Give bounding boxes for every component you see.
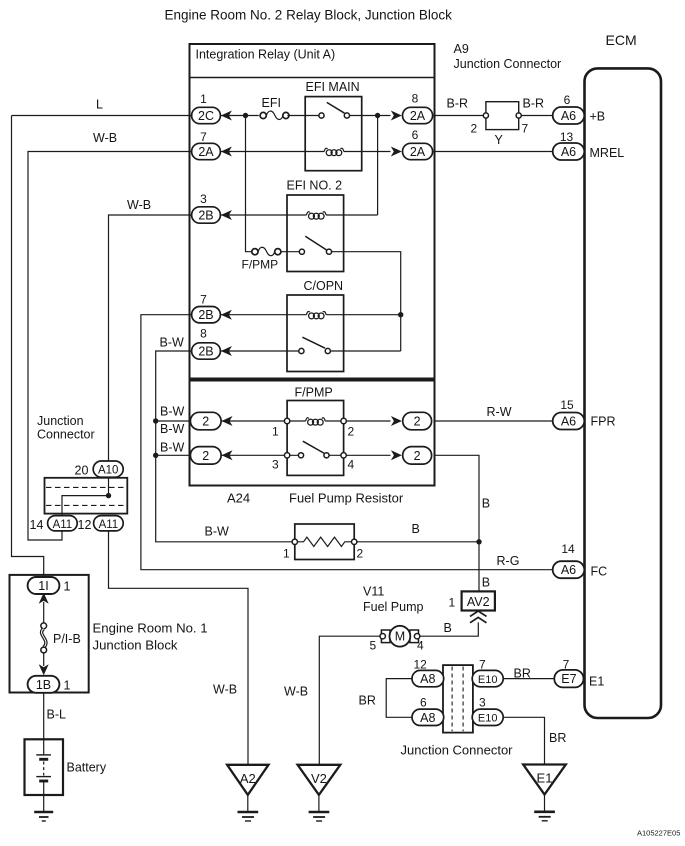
svg-text:3: 3 xyxy=(479,696,486,710)
node dot C/OPN xyxy=(398,312,403,317)
svg-text:3: 3 xyxy=(200,192,207,206)
svg-text:Integration Relay (Unit A): Integration Relay (Unit A) xyxy=(196,48,336,62)
wire arrow to fusible link xyxy=(43,602,45,623)
dashed vertical 1 xyxy=(451,667,453,732)
ECM box xyxy=(585,68,662,718)
wire EFI NO.2 coil right up xyxy=(326,214,378,216)
svg-text:C/OPN: C/OPN xyxy=(304,279,344,293)
svg-text:Connector: Connector xyxy=(37,428,95,442)
wire B from F/PMP pin4 row down xyxy=(435,455,480,542)
wire internal dot to A11 pin14 xyxy=(62,496,109,516)
svg-text:7: 7 xyxy=(522,122,529,136)
wire fuse to switch xyxy=(287,115,319,117)
svg-text:B-L: B-L xyxy=(47,708,67,722)
pin 7 circle of Y xyxy=(516,113,521,118)
svg-text:7: 7 xyxy=(563,658,570,672)
node junction dot inside A10 box xyxy=(106,493,111,498)
battery dashed middle xyxy=(43,762,45,776)
wire EFI NO.2 coil left to 2B pin3 xyxy=(221,214,307,216)
battery box xyxy=(25,739,64,795)
Engine Room No.1 junction block box xyxy=(10,575,89,693)
wire C/OPN coil right to dot xyxy=(326,314,401,316)
arrow down into 1B xyxy=(39,664,49,675)
wire F/PMP switch row right xyxy=(329,454,390,456)
wire fuse to EFI NO.2 switch xyxy=(280,251,299,253)
connector A8 pin6 xyxy=(412,709,444,725)
ground triangle V2 xyxy=(298,765,341,795)
svg-text:B: B xyxy=(444,621,452,635)
svg-text:W-B: W-B xyxy=(213,683,237,697)
svg-text:+B: +B xyxy=(590,110,606,124)
wire F/PMP coil row right xyxy=(325,420,390,422)
wire MREL row xyxy=(435,151,553,153)
resistor pin 1 circle xyxy=(292,539,297,544)
pin 2 circle of Y xyxy=(483,113,488,118)
svg-text:2: 2 xyxy=(414,415,421,429)
connector 2C pin1 xyxy=(192,107,221,123)
wire internal dot to A11 pin14 (redraw above box) xyxy=(62,478,109,514)
relay F/PMP box xyxy=(287,401,344,476)
arrow into 2A pin8 right xyxy=(391,111,402,121)
svg-text:6: 6 xyxy=(420,696,427,710)
svg-text:14: 14 xyxy=(30,518,44,532)
svg-text:2A: 2A xyxy=(198,145,214,159)
svg-text:2C: 2C xyxy=(198,109,214,123)
svg-text:R-G: R-G xyxy=(497,554,520,568)
arrow into 2 right row1 xyxy=(391,416,402,426)
svg-text:BR: BR xyxy=(514,667,531,681)
wire link to down arrow xyxy=(43,653,45,666)
svg-text:2B: 2B xyxy=(198,345,213,359)
svg-text:Junction Connector: Junction Connector xyxy=(401,743,514,758)
svg-text:2A: 2A xyxy=(410,145,426,159)
svg-text:Fuel Pump Resistor: Fuel Pump Resistor xyxy=(289,491,404,506)
svg-text:W-B: W-B xyxy=(93,131,117,145)
connector 2 right row2 xyxy=(403,447,432,465)
wire B-W from 2B pin8 xyxy=(156,351,295,542)
EFI MAIN switch contacts xyxy=(319,113,324,118)
arrow into 2A pin7 xyxy=(221,147,232,157)
svg-text:20: 20 xyxy=(75,464,89,478)
wire B dot down to AV2 xyxy=(478,542,480,592)
connector 2 F/PMP pin3 side xyxy=(190,447,221,465)
svg-text:E1: E1 xyxy=(589,675,604,689)
svg-text:A9: A9 xyxy=(454,42,469,56)
svg-text:7: 7 xyxy=(200,293,207,307)
EFI NO.2 coil xyxy=(307,212,310,215)
wire F/PMP switch row left xyxy=(221,454,298,456)
svg-text:B: B xyxy=(482,497,490,511)
node dot B-W row1 xyxy=(153,418,158,423)
svg-text:2: 2 xyxy=(202,415,209,429)
C/OPN switch blade xyxy=(302,337,325,348)
F/PMP pin 3 circle xyxy=(284,453,289,458)
wire B-W to F/PMP pin3 row xyxy=(156,454,191,456)
svg-text:Battery: Battery xyxy=(67,761,107,775)
svg-text:E10: E10 xyxy=(478,713,498,725)
wire battery to ground xyxy=(43,795,45,812)
svg-text:MREL: MREL xyxy=(590,146,625,160)
F/PMP switch blade xyxy=(303,441,324,453)
fusible link P/I-B xyxy=(41,623,47,629)
connector 2A pin8 xyxy=(403,107,433,123)
node dot B net xyxy=(476,539,481,544)
svg-text:BR: BR xyxy=(549,731,566,745)
fuse F/PMP xyxy=(252,249,258,255)
svg-text:L: L xyxy=(96,98,103,112)
arrow into 2B pin3 xyxy=(221,210,232,220)
svg-text:2: 2 xyxy=(471,122,478,136)
svg-text:M: M xyxy=(395,630,405,644)
ground triangle E1 xyxy=(523,765,566,795)
svg-text:4: 4 xyxy=(348,458,355,472)
battery internal wire bottom xyxy=(43,781,45,795)
svg-text:B-W: B-W xyxy=(160,441,185,455)
svg-text:1I: 1I xyxy=(38,579,48,593)
svg-text:2: 2 xyxy=(202,449,209,463)
arrow into 2B pin7 xyxy=(221,310,232,320)
resistor element xyxy=(298,537,352,546)
svg-text:B-W: B-W xyxy=(160,336,185,350)
svg-text:AV2: AV2 xyxy=(467,595,490,609)
node dot 2C row xyxy=(243,113,248,118)
dashed line lower xyxy=(46,504,126,506)
wire MREL coil row right xyxy=(344,151,391,153)
connector 2A pin6 xyxy=(403,143,433,159)
svg-text:2: 2 xyxy=(414,449,421,463)
connector 2 right row1 xyxy=(403,412,432,430)
connector E7 pin7 xyxy=(554,670,583,688)
fuse EFI xyxy=(260,112,266,118)
wire B-L 1B to battery xyxy=(43,693,45,740)
connector A6 pin14 FC xyxy=(553,561,585,578)
dashed line upper xyxy=(46,486,126,488)
wire fuel pump right to AV2 xyxy=(419,622,479,636)
svg-text:V11: V11 xyxy=(363,585,384,599)
F/PMP pin 2 circle xyxy=(341,418,346,423)
connector 1I xyxy=(28,577,60,594)
junction connector Y box xyxy=(486,102,519,130)
svg-text:FPR: FPR xyxy=(591,415,616,429)
svg-text:15: 15 xyxy=(560,398,574,412)
svg-text:Junction Connector: Junction Connector xyxy=(454,57,562,71)
header divider xyxy=(190,77,435,79)
svg-text:B-R: B-R xyxy=(447,97,469,111)
battery plate short 2 xyxy=(39,780,48,783)
svg-text:A6: A6 xyxy=(561,415,576,429)
connector A6 pin13 MREL xyxy=(553,143,585,160)
svg-text:4: 4 xyxy=(417,639,424,653)
svg-text:BR: BR xyxy=(359,694,376,708)
wire W-B from 2A pin7 xyxy=(28,152,192,541)
connector 2B pin7 xyxy=(192,307,221,323)
svg-text:13: 13 xyxy=(560,130,574,144)
svg-text:7: 7 xyxy=(200,130,207,144)
wire FC net from 2B pin7 to ECM FC xyxy=(141,315,553,570)
connector AV2 xyxy=(462,591,495,610)
connector A10 pin20 xyxy=(93,461,123,477)
svg-text:EFI NO. 2: EFI NO. 2 xyxy=(287,179,343,193)
svg-text:B: B xyxy=(482,576,490,590)
arrow into 2 row1 xyxy=(222,416,233,426)
svg-text:8: 8 xyxy=(412,92,419,106)
svg-text:12: 12 xyxy=(414,658,428,672)
svg-text:6: 6 xyxy=(412,128,419,142)
wire A11 pin12 down to A2 ground xyxy=(109,531,249,765)
wire B-W to F/PMP pin1 row xyxy=(156,420,191,422)
wire A8 pin12 to E10 pin7 through box xyxy=(444,678,473,680)
battery internal wire top xyxy=(43,739,45,755)
ground V2 bars xyxy=(318,795,320,812)
svg-text:Fuel Pump: Fuel Pump xyxy=(363,600,423,614)
svg-text:F/PMP: F/PMP xyxy=(242,258,279,272)
C/OPN coil xyxy=(307,311,310,314)
wire C/OPN switch left to 2B pin8 xyxy=(221,350,299,352)
svg-text:A11: A11 xyxy=(53,519,73,531)
connector 2B pin3 xyxy=(192,207,221,223)
svg-text:ECM: ECM xyxy=(606,32,637,48)
svg-text:A8: A8 xyxy=(420,672,435,686)
arrow into 2A pin6 right xyxy=(391,147,402,157)
C/OPN switch contacts xyxy=(299,348,304,353)
battery plate short 1 xyxy=(39,758,48,761)
svg-text:2B: 2B xyxy=(198,209,213,223)
connector A6 pin15 FPR xyxy=(553,413,585,430)
svg-text:P/I-B: P/I-B xyxy=(53,632,81,646)
dashed vertical 2 xyxy=(462,667,464,732)
svg-text:2: 2 xyxy=(357,547,364,561)
wire E10 pin3 to E1 ground xyxy=(503,717,545,764)
node junction dot A10/A11 xyxy=(106,493,111,498)
ground battery xyxy=(34,811,53,814)
svg-text:14: 14 xyxy=(561,542,575,556)
node dot B-W row2 xyxy=(153,453,158,458)
wire C/OPN coil left to 2B pin7 xyxy=(221,314,307,316)
F/PMP pin 4 circle xyxy=(341,453,346,458)
EFI NO.2 switch contacts xyxy=(299,249,304,254)
svg-text:A11: A11 xyxy=(99,519,119,531)
svg-text:1: 1 xyxy=(64,580,71,594)
svg-text:A105227E05: A105227E05 xyxy=(637,829,680,838)
svg-text:B: B xyxy=(412,522,420,536)
svg-text:B-W: B-W xyxy=(160,405,185,419)
wire A8 pin6 to E10 pin3 through box xyxy=(444,716,473,718)
wire BR loop A8 pin12 to A8 pin6 xyxy=(386,679,412,718)
junction connector box bottom xyxy=(443,665,473,733)
node dot +B row right xyxy=(375,113,380,118)
EFI NO.2 switch blade xyxy=(305,236,326,250)
wire EFI NO.2 switch right down to C/OPN xyxy=(332,252,401,351)
svg-text:EFI: EFI xyxy=(262,96,281,110)
arrow into 2 row2 xyxy=(222,450,233,460)
connector 2A pin7 xyxy=(192,143,221,159)
wire fuel pump left to V2 xyxy=(319,636,381,765)
svg-text:R-W: R-W xyxy=(487,405,512,419)
svg-text:1: 1 xyxy=(283,547,290,561)
svg-text:FC: FC xyxy=(591,565,608,579)
relay EFI MAIN box xyxy=(305,97,362,171)
wire E10 pin7 to E7 xyxy=(503,678,555,680)
svg-text:B-W: B-W xyxy=(205,525,230,539)
wire B-R Y to ECM +B xyxy=(519,115,553,117)
chevron connector symbol xyxy=(470,611,487,616)
svg-text:2B: 2B xyxy=(198,308,213,322)
svg-text:A8: A8 xyxy=(420,711,435,725)
arrow into 2 right row2 xyxy=(391,450,402,460)
svg-text:B-W: B-W xyxy=(160,422,185,436)
svg-text:F/PMP: F/PMP xyxy=(295,386,333,400)
svg-text:Engine Room No. 1: Engine Room No. 1 xyxy=(93,621,208,636)
svg-text:EFI MAIN: EFI MAIN xyxy=(306,80,360,94)
connector 2B pin8 xyxy=(192,343,221,359)
connector A6 pin6 +B xyxy=(553,107,585,124)
fuel pump motor V11 xyxy=(381,630,390,643)
relay internal wire 2C to EFI MAIN switch xyxy=(221,115,259,117)
arrow into 2B pin8 xyxy=(221,346,232,356)
resistor pin 2 circle xyxy=(352,539,357,544)
svg-text:W-B: W-B xyxy=(284,685,308,699)
svg-text:A24: A24 xyxy=(227,491,250,506)
connector E10 pin7 xyxy=(472,670,503,686)
svg-text:7: 7 xyxy=(479,658,486,672)
svg-text:B-R: B-R xyxy=(523,97,545,111)
F/PMP coil xyxy=(306,418,309,421)
wire vertical +B dot to EFI NO.2 coil xyxy=(377,116,379,216)
arrow up into 1I xyxy=(39,593,49,604)
svg-text:A6: A6 xyxy=(561,563,576,577)
svg-text:3: 3 xyxy=(272,458,279,472)
svg-text:1B: 1B xyxy=(36,678,51,692)
svg-text:Junction: Junction xyxy=(37,414,84,428)
connector A11 pin12 xyxy=(94,516,124,531)
svg-text:A10: A10 xyxy=(98,465,118,477)
svg-text:2A: 2A xyxy=(410,109,426,123)
wire F/PMP coil row left xyxy=(221,420,306,422)
ground A2 bars xyxy=(247,795,249,812)
fuel pump resistor box xyxy=(295,524,354,560)
junction connector A10/A11 box xyxy=(45,478,128,514)
connector 1B xyxy=(28,676,60,693)
wire C/OPN switch right xyxy=(330,350,400,352)
svg-text:V2: V2 xyxy=(311,771,327,786)
battery plate long 1 xyxy=(36,754,51,756)
F/PMP relay enclosure xyxy=(190,381,435,486)
wire B-R +B row relay to Y xyxy=(435,115,487,117)
svg-text:A2: A2 xyxy=(240,771,256,786)
connector E10 pin3 xyxy=(472,709,503,725)
svg-text:12: 12 xyxy=(78,518,92,532)
svg-text:E1: E1 xyxy=(537,771,553,786)
relay C/OPN box xyxy=(287,295,344,372)
wire R-W FPR row xyxy=(435,420,553,422)
EFI MAIN coil xyxy=(324,148,327,151)
F/PMP pin 1 circle xyxy=(284,418,289,423)
svg-text:5: 5 xyxy=(370,639,377,653)
svg-text:Engine Room No. 2 Relay Block,: Engine Room No. 2 Relay Block, Junction … xyxy=(165,8,453,23)
connector A11 pin14 xyxy=(48,516,78,531)
wire B from resistor pin2 to dot xyxy=(354,541,479,543)
wire W-B from 2B pin3 to A10 xyxy=(109,215,193,461)
svg-text:1: 1 xyxy=(449,596,456,610)
svg-text:E7: E7 xyxy=(561,672,576,686)
arrow into 2C xyxy=(221,111,232,121)
svg-text:A6: A6 xyxy=(561,145,576,159)
relay EFI NO.2 box xyxy=(287,195,344,272)
svg-text:8: 8 xyxy=(200,327,207,341)
F/PMP switch contacts xyxy=(298,453,303,458)
svg-text:W-B: W-B xyxy=(127,198,151,212)
svg-text:A6: A6 xyxy=(561,109,576,123)
wire junction connector internal A10 to dot xyxy=(108,478,110,496)
svg-text:1: 1 xyxy=(200,92,207,106)
wire switch to dot right xyxy=(350,115,391,117)
connector A8 pin12 xyxy=(412,670,444,686)
battery plate long 2 xyxy=(36,776,51,778)
wire L horizontal to 2C xyxy=(12,115,193,117)
wire L vertical left edge xyxy=(12,116,44,578)
svg-text:Junction Block: Junction Block xyxy=(93,638,178,653)
ground triangle A2 xyxy=(227,765,268,795)
svg-text:E10: E10 xyxy=(478,674,498,686)
svg-text:2: 2 xyxy=(348,425,355,439)
wire vertical dot to F/PMP fuse xyxy=(246,116,252,252)
wire MREL coil row left xyxy=(221,151,325,153)
svg-text:1: 1 xyxy=(272,425,279,439)
svg-text:1: 1 xyxy=(64,679,71,693)
Integration Relay block (Unit A) xyxy=(190,44,435,379)
svg-text:6: 6 xyxy=(564,93,571,107)
ground E1 bars xyxy=(544,795,546,812)
connector 2 F/PMP pin1 side xyxy=(190,412,221,430)
svg-text:Y: Y xyxy=(495,133,504,147)
EFI MAIN switch blade xyxy=(327,102,345,113)
